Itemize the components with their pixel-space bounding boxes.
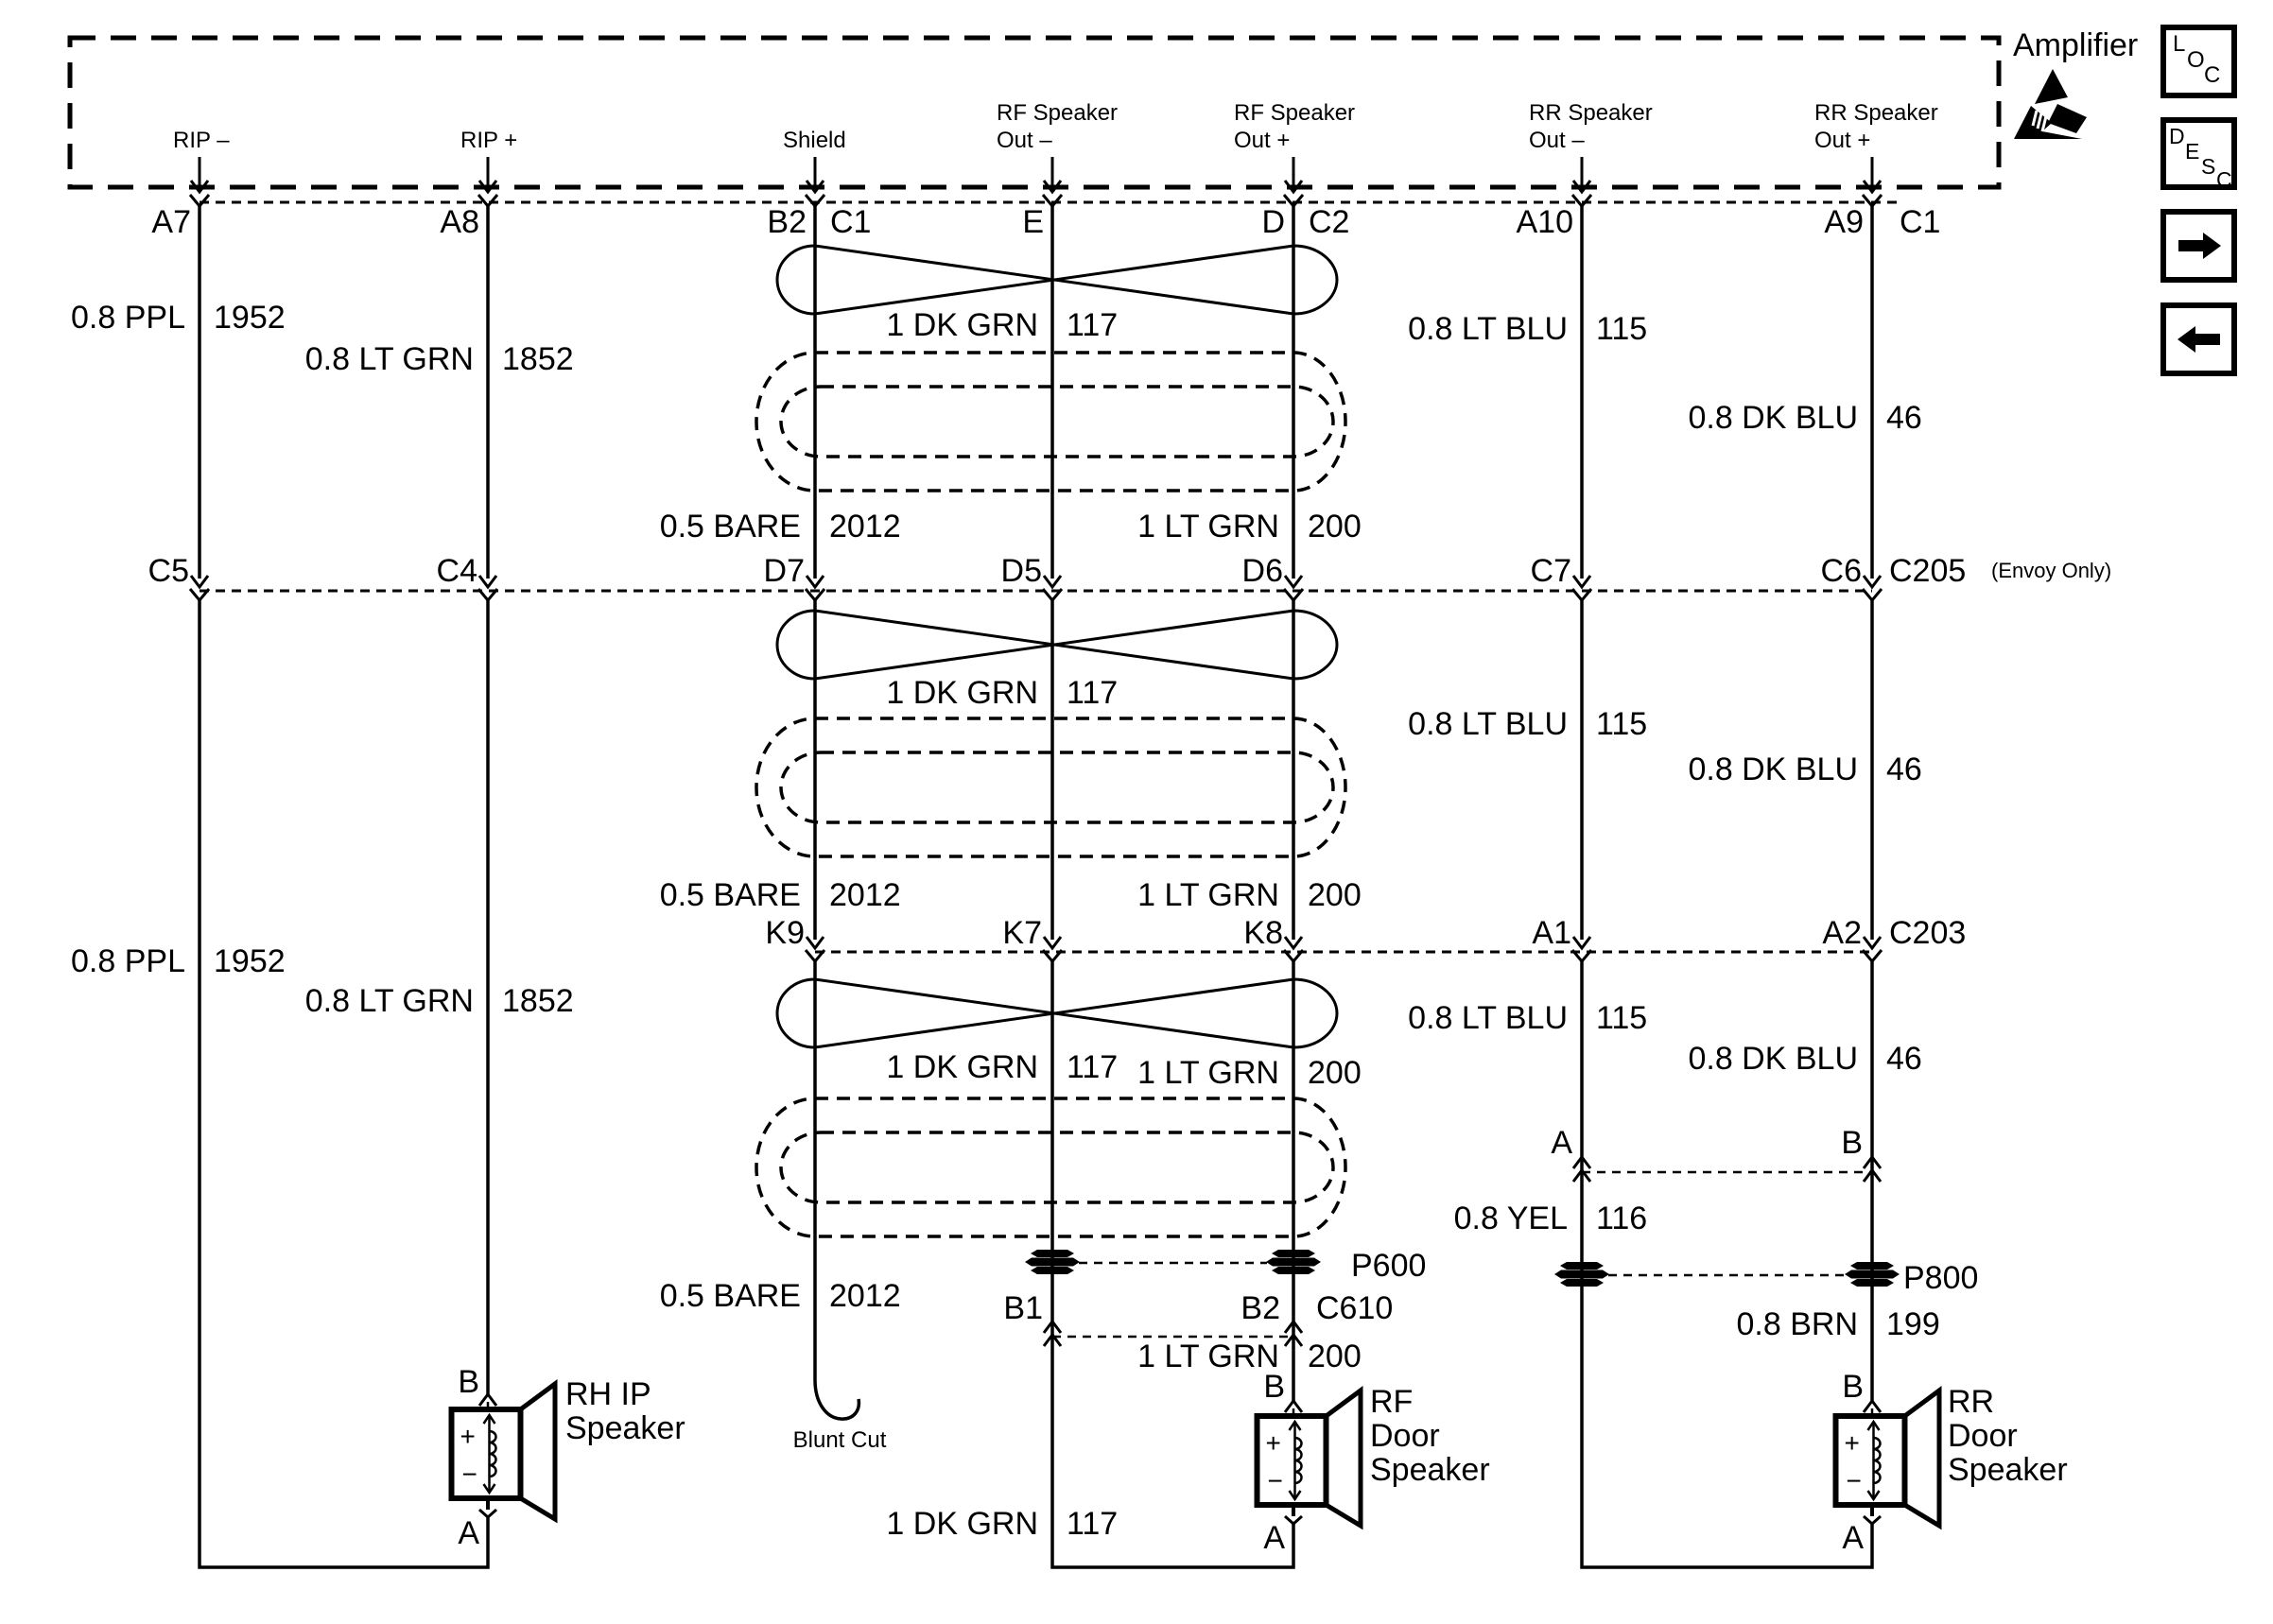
svg-text:Door: Door	[1948, 1418, 2018, 1454]
svg-text:46: 46	[1886, 752, 1922, 787]
wire RR Out- 0.8 LT BLU 115 / 0.8 YEL 116	[1582, 206, 1872, 1567]
connector row1 pin D	[1261, 195, 1349, 240]
svg-text:115: 115	[1596, 1000, 1647, 1036]
svg-text:2012: 2012	[829, 509, 901, 544]
svg-text:200: 200	[1308, 509, 1362, 544]
svg-text:S: S	[2201, 154, 2215, 179]
svg-text:Amplifier: Amplifier	[2013, 27, 2138, 63]
wire RR Out+ 0.8 DK BLU 46 / 0.8 BRN 199	[1870, 206, 1874, 1416]
svg-text:0.8 DK BLU: 0.8 DK BLU	[1688, 752, 1858, 787]
speaker RF Door terminal B	[1263, 1369, 1302, 1412]
svg-text:0.8 DK BLU: 0.8 DK BLU	[1688, 1041, 1858, 1077]
label Blunt Cut	[793, 1427, 887, 1453]
svg-text:200: 200	[1308, 877, 1362, 913]
svg-text:115: 115	[1596, 311, 1647, 347]
amplifier pin RIP +	[460, 128, 517, 192]
connector A-B dashed line	[1582, 1171, 1872, 1174]
svg-text:A: A	[1551, 1125, 1572, 1161]
label 0.8 BRN 199	[1737, 1306, 1940, 1342]
connector C203 pin A1	[1532, 915, 1591, 961]
svg-text:D5: D5	[1001, 553, 1042, 589]
legend box arrow left	[2163, 305, 2234, 373]
svg-text:−: −	[462, 1460, 477, 1489]
svg-text:RIP –: RIP –	[173, 128, 230, 153]
shield symbol row2	[756, 718, 1345, 856]
svg-text:RR Speaker: RR Speaker	[1814, 100, 1938, 126]
svg-text:0.8 LT BLU: 0.8 LT BLU	[1408, 311, 1568, 347]
connector row C1 C2 dashed line	[200, 201, 1900, 204]
connector C205 pin D5	[1001, 553, 1062, 600]
svg-text:Door: Door	[1370, 1418, 1440, 1454]
svg-text:Shield: Shield	[783, 128, 846, 153]
splice P800 left	[1554, 1262, 1609, 1287]
svg-text:A: A	[1842, 1520, 1864, 1556]
connector row1 pin A7	[151, 195, 209, 240]
speaker RR Door	[1836, 1384, 2068, 1526]
svg-text:A9: A9	[1824, 204, 1864, 240]
svg-text:2012: 2012	[829, 877, 901, 913]
connector C205 pin C6	[1821, 553, 1882, 600]
label 0.8 LT GRN 1852 (c)	[305, 983, 574, 1019]
connector C205 pin C4	[437, 553, 497, 600]
svg-text:1 DK GRN: 1 DK GRN	[886, 1506, 1038, 1542]
label 1 DK GRN 117 (a)	[886, 307, 1118, 343]
label 0.8 DK BLU 46 (a)	[1688, 400, 1921, 436]
amplifier pin RF Speaker Out -	[997, 100, 1118, 192]
speaker RH IP	[452, 1376, 685, 1519]
splice P800	[1845, 1260, 1978, 1296]
twisted pair symbol row2	[777, 611, 1337, 679]
svg-text:1 LT GRN: 1 LT GRN	[1137, 877, 1279, 913]
svg-text:0.8 LT BLU: 0.8 LT BLU	[1408, 706, 1568, 742]
svg-text:K9: K9	[765, 915, 805, 951]
svg-text:200: 200	[1308, 1339, 1362, 1374]
speaker RH IP terminal A	[458, 1498, 496, 1551]
svg-text:1 LT GRN: 1 LT GRN	[1137, 509, 1279, 544]
svg-text:C1: C1	[830, 204, 871, 240]
svg-text:(Envoy Only): (Envoy Only)	[1991, 559, 2111, 582]
connector C203 pin A2	[1822, 915, 1882, 961]
wire Shield 0.5 BARE 2012	[815, 206, 859, 1419]
splice P600 dashed link	[1079, 1262, 1267, 1265]
svg-text:C5: C5	[148, 553, 189, 589]
svg-text:Speaker: Speaker	[565, 1410, 685, 1446]
svg-text:RF Speaker: RF Speaker	[1234, 100, 1355, 126]
svg-text:0.8 LT GRN: 0.8 LT GRN	[305, 983, 474, 1019]
svg-text:A: A	[1263, 1520, 1285, 1556]
speaker RF Door terminal A	[1263, 1505, 1302, 1556]
svg-text:46: 46	[1886, 400, 1922, 436]
connector C610 pin B2	[1241, 1290, 1393, 1346]
wire RF Out+ 1 LT GRN 200	[1292, 206, 1295, 1416]
svg-text:+: +	[460, 1422, 476, 1451]
label 0.5 BARE 2012 (c)	[660, 1278, 901, 1314]
svg-text:1852: 1852	[502, 341, 574, 377]
label 0.5 BARE 2012 (a)	[660, 509, 901, 544]
svg-text:C4: C4	[437, 553, 477, 589]
splice P600 left	[1025, 1250, 1080, 1274]
connector pin A	[1551, 1125, 1590, 1182]
svg-text:Out +: Out +	[1234, 128, 1290, 153]
svg-text:E: E	[1022, 204, 1044, 240]
svg-text:−: −	[1268, 1466, 1283, 1495]
svg-text:A: A	[458, 1515, 479, 1551]
svg-text:P600: P600	[1351, 1248, 1426, 1284]
label C203	[1889, 915, 1966, 951]
svg-text:B1: B1	[1003, 1290, 1043, 1326]
svg-text:0.8 PPL: 0.8 PPL	[71, 943, 185, 979]
svg-text:Speaker: Speaker	[1370, 1452, 1490, 1488]
twisted pair symbol row1	[777, 246, 1337, 314]
svg-text:0.8 BRN: 0.8 BRN	[1737, 1306, 1859, 1342]
amplifier pin RIP -	[173, 128, 230, 192]
svg-text:K7: K7	[1002, 915, 1042, 951]
label 1 DK GRN 117 (d)	[886, 1506, 1118, 1542]
svg-text:1 LT GRN: 1 LT GRN	[1137, 1055, 1279, 1091]
svg-text:K8: K8	[1243, 915, 1283, 951]
label 0.5 BARE 2012 (b)	[660, 877, 901, 913]
svg-text:0.8 DK BLU: 0.8 DK BLU	[1688, 400, 1858, 436]
svg-text:B2: B2	[767, 204, 807, 240]
svg-text:RH IP: RH IP	[565, 1376, 651, 1412]
svg-text:Speaker: Speaker	[1948, 1452, 2068, 1488]
svg-text:1 DK GRN: 1 DK GRN	[886, 307, 1038, 343]
svg-text:0.5 BARE: 0.5 BARE	[660, 877, 801, 913]
svg-text:A2: A2	[1822, 915, 1862, 951]
connector C203 pin K7	[1002, 915, 1062, 961]
svg-text:E: E	[2185, 139, 2199, 164]
svg-text:A1: A1	[1532, 915, 1571, 951]
svg-text:0.8 YEL: 0.8 YEL	[1454, 1201, 1568, 1236]
svg-text:46: 46	[1886, 1041, 1922, 1077]
connector C203 pin K8	[1243, 915, 1303, 961]
shield symbol row3	[756, 1098, 1345, 1236]
svg-text:B: B	[1842, 1369, 1864, 1405]
amplifier pin RR Speaker Out -	[1529, 100, 1653, 192]
svg-text:+: +	[1266, 1428, 1281, 1458]
svg-text:C7: C7	[1531, 553, 1571, 589]
svg-text:+: +	[1845, 1428, 1860, 1458]
connector C610 pin B1	[1003, 1290, 1061, 1346]
connector row1 pin A8	[440, 195, 497, 240]
svg-text:A10: A10	[1517, 204, 1574, 240]
svg-text:0.8 LT GRN: 0.8 LT GRN	[305, 341, 474, 377]
svg-text:0.5 BARE: 0.5 BARE	[660, 1278, 801, 1314]
svg-text:RIP +: RIP +	[460, 128, 517, 153]
svg-text:B2: B2	[1241, 1290, 1280, 1326]
label 0.8 LT BLU 115 (a)	[1408, 311, 1647, 347]
amplifier box	[70, 38, 1999, 187]
svg-text:117: 117	[1067, 1506, 1118, 1542]
legend box LOC	[2163, 27, 2234, 95]
label 0.8 LT BLU 115 (c)	[1408, 1000, 1647, 1036]
label 1 LT GRN 200 (a)	[1137, 509, 1362, 544]
svg-text:1952: 1952	[214, 943, 286, 979]
label 1 LT GRN 200 (b)	[1137, 877, 1362, 913]
amplifier pin Shield	[783, 128, 846, 192]
label 1 DK GRN 117 (b)	[886, 675, 1118, 711]
svg-text:O: O	[2187, 47, 2205, 73]
svg-text:B: B	[458, 1364, 479, 1400]
ESD symbol	[2014, 69, 2087, 139]
label 0.8 LT BLU 115 (b)	[1408, 706, 1647, 742]
wire RIP- 0.8 PPL 1952	[200, 206, 488, 1567]
connector C203 pin K9	[765, 915, 824, 961]
speaker RR Door terminal A	[1842, 1505, 1881, 1556]
label 0.8 PPL 1952 (a)	[71, 300, 286, 336]
svg-text:117: 117	[1067, 675, 1118, 711]
svg-text:Out –: Out –	[997, 128, 1052, 153]
svg-text:C203: C203	[1889, 915, 1966, 951]
svg-text:D: D	[2169, 124, 2185, 148]
svg-text:C205: C205	[1889, 553, 1966, 589]
svg-text:RR: RR	[1948, 1384, 1994, 1420]
connector row1 pin A10	[1517, 195, 1592, 240]
svg-text:RF Speaker: RF Speaker	[997, 100, 1118, 126]
svg-text:P800: P800	[1903, 1260, 1978, 1296]
connector C205 dashed line	[200, 590, 1872, 593]
label 0.8 LT GRN 1852 (a)	[305, 341, 574, 377]
label 0.8 DK BLU 46 (b)	[1688, 752, 1921, 787]
connector row1 pin B2	[767, 195, 871, 240]
svg-text:1852: 1852	[502, 983, 574, 1019]
svg-text:117: 117	[1067, 1049, 1118, 1085]
label C205 (Envoy Only)	[1889, 553, 2111, 589]
wire RIP+ 0.8 LT GRN 1852	[486, 206, 490, 1409]
svg-text:−: −	[1847, 1466, 1862, 1495]
twisted pair symbol row3	[777, 979, 1337, 1047]
connector C205 pin D6	[1242, 553, 1303, 600]
svg-text:1 LT GRN: 1 LT GRN	[1137, 1339, 1279, 1374]
connector C610 dashed line	[1052, 1336, 1293, 1339]
svg-text:Out –: Out –	[1529, 128, 1585, 153]
amplifier pin RR Speaker Out +	[1814, 100, 1938, 192]
wire RF Out- 1 DK GRN 117	[1052, 206, 1293, 1567]
legend box DESC	[2163, 120, 2234, 192]
svg-text:Blunt Cut: Blunt Cut	[793, 1427, 887, 1453]
speaker RH IP terminal B	[458, 1364, 496, 1406]
svg-text:C610: C610	[1316, 1290, 1393, 1326]
svg-text:C: C	[2216, 167, 2232, 192]
svg-text:B: B	[1263, 1369, 1285, 1405]
svg-text:D: D	[1261, 204, 1285, 240]
svg-text:C1: C1	[1900, 204, 1940, 240]
svg-text:D7: D7	[764, 553, 805, 589]
svg-text:C: C	[2204, 62, 2220, 88]
connector C205 pin D7	[764, 553, 824, 600]
amplifier pin RF Speaker Out +	[1234, 100, 1355, 192]
svg-text:L: L	[2173, 31, 2185, 57]
svg-text:200: 200	[1308, 1055, 1362, 1091]
connector row1 pin E	[1022, 195, 1062, 240]
splice P600	[1266, 1248, 1426, 1284]
label Amplifier	[2013, 27, 2138, 63]
svg-text:0.5 BARE: 0.5 BARE	[660, 509, 801, 544]
svg-text:1 DK GRN: 1 DK GRN	[886, 1049, 1038, 1085]
label 0.8 YEL 116	[1454, 1201, 1648, 1236]
svg-text:1952: 1952	[214, 300, 286, 336]
svg-text:115: 115	[1596, 706, 1647, 742]
label 1 DK GRN 117 (c)	[886, 1049, 1118, 1085]
svg-text:Out +: Out +	[1814, 128, 1870, 153]
svg-text:0.8 PPL: 0.8 PPL	[71, 300, 185, 336]
label 0.8 PPL 1952 (c)	[71, 943, 286, 979]
svg-text:B: B	[1841, 1125, 1863, 1161]
svg-text:A7: A7	[151, 204, 191, 240]
svg-text:116: 116	[1596, 1201, 1647, 1236]
speaker RR Door terminal B	[1842, 1369, 1881, 1412]
shield symbol row1	[756, 353, 1345, 491]
svg-text:RR Speaker: RR Speaker	[1529, 100, 1653, 126]
svg-text:A8: A8	[440, 204, 479, 240]
svg-text:117: 117	[1067, 307, 1118, 343]
label 1 LT GRN 200 (c)	[1137, 1055, 1362, 1091]
connector C203 dashed line	[815, 951, 1872, 954]
svg-text:199: 199	[1886, 1306, 1940, 1342]
legend box arrow right	[2163, 212, 2234, 280]
svg-text:C6: C6	[1821, 553, 1862, 589]
speaker RF Door	[1258, 1384, 1490, 1526]
svg-text:1 DK GRN: 1 DK GRN	[886, 675, 1038, 711]
connector row1 pin A9	[1824, 195, 1940, 240]
svg-text:RF: RF	[1370, 1384, 1413, 1420]
connector pin B	[1841, 1125, 1881, 1182]
svg-text:C2: C2	[1309, 204, 1349, 240]
connector C205 pin C5	[148, 553, 209, 600]
connector C205 pin C7	[1531, 553, 1591, 600]
svg-text:0.8 LT BLU: 0.8 LT BLU	[1408, 1000, 1568, 1036]
splice P800 dashed link	[1608, 1274, 1846, 1277]
label 0.8 DK BLU 46 (c)	[1688, 1041, 1921, 1077]
svg-text:2012: 2012	[829, 1278, 901, 1314]
svg-text:D6: D6	[1242, 553, 1283, 589]
label 1 LT GRN 200 (d)	[1137, 1339, 1362, 1374]
